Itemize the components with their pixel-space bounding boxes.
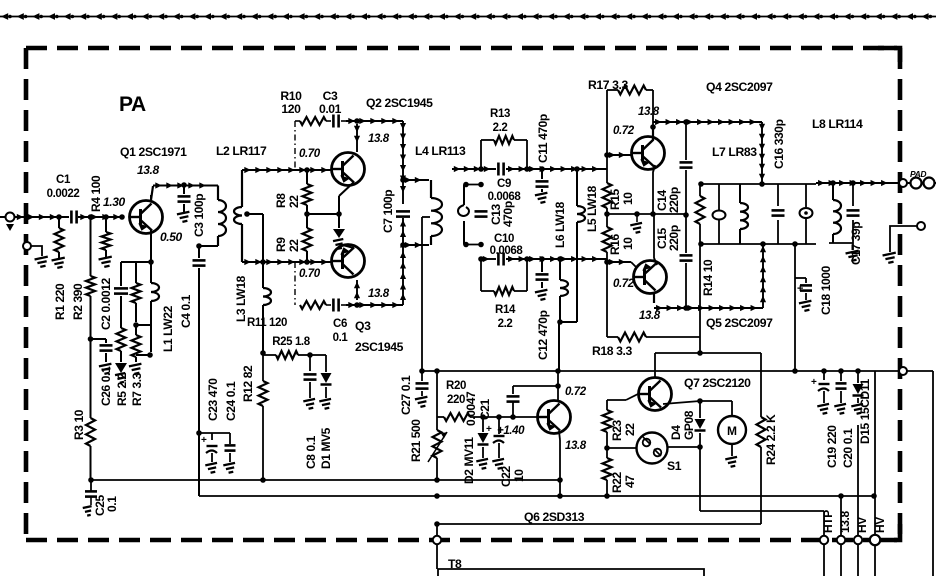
node <box>830 180 856 186</box>
label Q6 2SD313 <box>524 510 585 524</box>
wire <box>654 214 657 265</box>
svg-text:R13: R13 <box>490 108 510 120</box>
ground <box>177 212 191 223</box>
label C1 0.0022 <box>47 174 80 200</box>
svg-text:22: 22 <box>623 423 637 436</box>
label R21 500 <box>409 419 423 462</box>
label R22 47 <box>610 471 637 493</box>
svg-text:220: 220 <box>447 394 465 406</box>
svg-text:47: 47 <box>623 475 637 488</box>
label C15 220p <box>655 225 681 251</box>
svg-text:0.72: 0.72 <box>565 386 587 398</box>
wire <box>653 293 655 303</box>
label C8 0.1 <box>304 435 318 469</box>
wire <box>452 166 496 172</box>
transformer T8 box <box>438 569 704 576</box>
svg-text:0.1: 0.1 <box>105 496 119 512</box>
svg-text:13.8: 13.8 <box>368 288 390 300</box>
label R23 22 <box>610 419 637 441</box>
svg-text:Q5 2SC2097: Q5 2SC2097 <box>706 316 773 330</box>
capacitor C15 220p <box>680 215 693 308</box>
svg-text:R15: R15 <box>608 188 622 210</box>
node <box>478 166 484 262</box>
diode D15 15CD11 <box>853 371 864 403</box>
transistor Q5 <box>634 261 667 294</box>
wire <box>346 302 403 308</box>
ground <box>303 399 316 410</box>
wire <box>481 256 496 262</box>
label 0.70 <box>299 268 321 280</box>
node <box>354 118 360 124</box>
wire <box>295 120 300 122</box>
wire <box>339 244 354 248</box>
svg-text:C12 470p: C12 470p <box>536 310 550 360</box>
capacitor C25 0.1 <box>83 480 97 516</box>
label 1.30 <box>103 195 125 209</box>
input connector J1 <box>0 213 15 232</box>
inductor L4 <box>431 180 442 245</box>
svg-text:Q6 2SD313: Q6 2SD313 <box>524 510 585 524</box>
node <box>698 241 798 247</box>
inductor L6 LW18 <box>560 259 568 322</box>
node <box>400 177 406 248</box>
svg-text:0.0047: 0.0047 <box>464 391 478 426</box>
wire <box>339 182 354 228</box>
wire <box>655 352 761 354</box>
wire <box>354 124 360 152</box>
node <box>759 181 765 187</box>
node <box>260 350 266 356</box>
wire <box>506 166 607 172</box>
wire <box>247 213 263 215</box>
resistor R1 220 <box>55 217 64 258</box>
wire rail A <box>91 479 560 481</box>
svg-text:10: 10 <box>621 237 635 250</box>
svg-text:13.8: 13.8 <box>368 133 390 145</box>
capacitor C27 0.1 <box>416 371 429 396</box>
label C27 0.1 <box>399 375 413 415</box>
wire <box>607 213 686 215</box>
capacitor C23 470 <box>201 433 218 462</box>
capacitor C9 0.0068 <box>498 163 503 176</box>
svg-text:C26 0.1: C26 0.1 <box>99 366 113 406</box>
label 13.8 <box>565 440 587 452</box>
node <box>307 352 313 358</box>
svg-text:R9: R9 <box>274 237 288 252</box>
svg-text:L8 LR114: L8 LR114 <box>812 117 863 131</box>
label 0.72 <box>565 386 587 398</box>
wire <box>794 278 796 371</box>
label C3 0.01 <box>319 89 342 116</box>
svg-text:C1: C1 <box>56 174 71 186</box>
resistor R2 390 <box>86 276 95 296</box>
wire <box>700 510 824 512</box>
wire <box>120 351 122 362</box>
node <box>555 383 561 389</box>
svg-text:R3 10: R3 10 <box>72 409 86 440</box>
capacitor C11 470p <box>536 169 549 192</box>
resistor R17 3.3 <box>607 86 653 95</box>
label Q4 2SC2097 <box>706 80 773 94</box>
node <box>524 256 563 262</box>
ground <box>799 301 813 312</box>
node <box>88 477 563 483</box>
wire <box>151 186 153 200</box>
svg-text:R23: R23 <box>610 419 624 441</box>
node <box>650 124 656 130</box>
svg-text:L3 LW18: L3 LW18 <box>234 275 248 322</box>
ground <box>535 290 549 301</box>
inductor L3 LW18 <box>263 288 271 353</box>
wire <box>121 261 151 263</box>
node <box>634 211 640 217</box>
ground <box>99 257 114 268</box>
resistor R4 100 <box>102 217 111 257</box>
svg-text:C3 100p: C3 100p <box>192 194 206 237</box>
node <box>181 182 187 188</box>
svg-text:13.8: 13.8 <box>638 106 660 118</box>
capacitor C16 330p <box>772 184 785 244</box>
ground <box>415 397 429 408</box>
label C16 330p <box>772 119 786 169</box>
svg-text:L5 LW18: L5 LW18 <box>585 185 599 232</box>
wire <box>606 155 608 183</box>
svg-text:Q7 2SC2120: Q7 2SC2120 <box>684 376 751 390</box>
label PAD <box>910 169 926 179</box>
svg-text:D15 15CD11: D15 15CD11 <box>858 379 872 444</box>
wire <box>557 371 559 400</box>
wire <box>700 183 816 185</box>
transistor Q3 <box>332 245 365 278</box>
capacitor C18 1000 <box>795 278 812 300</box>
input shield feedthrough <box>23 242 42 256</box>
svg-text:120: 120 <box>281 102 301 116</box>
resistor R11 120 <box>300 301 326 309</box>
svg-text:R16: R16 <box>608 233 622 255</box>
label 13.8 <box>368 288 390 300</box>
node <box>524 166 580 172</box>
label C9 0.0068 <box>488 178 522 203</box>
svg-text:C6: C6 <box>333 318 347 330</box>
svg-text:C16 330p: C16 330p <box>772 119 786 169</box>
node <box>557 319 563 325</box>
node <box>103 214 109 220</box>
svg-text:R12 82: R12 82 <box>241 365 255 402</box>
label L5 LW18 <box>585 185 599 232</box>
svg-text:470p: 470p <box>501 201 515 227</box>
inductor L4 secondary <box>458 182 484 248</box>
wire <box>607 447 637 449</box>
wire <box>153 182 218 188</box>
wire <box>196 430 230 436</box>
label L1 LW22 <box>161 305 175 352</box>
wire <box>668 446 700 448</box>
label C13 470p <box>489 201 515 227</box>
svg-text:Q2 2SC1945: Q2 2SC1945 <box>366 96 433 110</box>
label HTP <box>821 510 835 533</box>
wire <box>816 180 898 186</box>
wire <box>760 244 766 308</box>
inductor L7 <box>740 184 748 244</box>
resistor R3 10 <box>86 339 95 480</box>
svg-text:R5 2.2: R5 2.2 <box>115 372 129 406</box>
svg-text:+1.40: +1.40 <box>497 425 525 437</box>
label L2 LR117 <box>216 144 267 158</box>
label Q1 2SC1971 <box>120 145 187 159</box>
wire <box>506 256 607 262</box>
resistor R13 2.2 <box>481 136 527 169</box>
inductor L7 link <box>713 184 726 244</box>
label C3 100p <box>192 194 206 237</box>
node <box>148 259 154 265</box>
terminal HV <box>854 536 862 576</box>
svg-text:0.01: 0.01 <box>319 102 342 116</box>
label L4 LR113 <box>415 144 466 158</box>
svg-text:Q4 2SC2097: Q4 2SC2097 <box>706 80 773 94</box>
ground <box>834 404 847 415</box>
label D1 MV5 <box>319 427 333 469</box>
wire dash-dot <box>294 262 296 305</box>
svg-text:D4: D4 <box>669 425 683 440</box>
wire <box>91 339 107 343</box>
wire rail B <box>199 495 874 497</box>
svg-text:L2 LR117: L2 LR117 <box>216 144 267 158</box>
diode D1 MV5 <box>310 355 332 398</box>
svg-text:220p: 220p <box>667 225 681 251</box>
ground <box>851 404 864 415</box>
node <box>434 493 877 499</box>
svg-text:0.70: 0.70 <box>299 148 321 160</box>
wire <box>150 195 152 202</box>
transistor Q4 <box>632 137 665 170</box>
inductor L2 left winding <box>234 170 242 262</box>
wire <box>262 214 264 288</box>
wire <box>636 214 638 222</box>
ground <box>333 229 345 249</box>
ground <box>115 363 127 383</box>
label C26 0.1 <box>99 366 113 406</box>
resistor R8 22 <box>303 167 312 214</box>
capacitor C26 0.1 <box>100 345 113 362</box>
label C20 0.1 <box>841 428 855 468</box>
capacitor C7 100p <box>396 211 410 216</box>
svg-text:2SC1945: 2SC1945 <box>355 340 404 354</box>
capacitor C21 0.0047 <box>507 386 559 417</box>
node <box>604 259 610 265</box>
label R24 2.2 K <box>764 414 778 465</box>
label C11 470p <box>536 114 550 163</box>
label Q3 2SC1945 <box>355 319 404 354</box>
svg-text:+: + <box>201 435 207 446</box>
wire <box>852 243 854 250</box>
transistor Q7 <box>639 378 672 411</box>
svg-text:10: 10 <box>621 192 635 205</box>
svg-text:+: + <box>811 377 817 388</box>
label Q5 2SC2097 <box>706 316 773 330</box>
label R10 120 <box>280 89 302 116</box>
svg-text:C23 470: C23 470 <box>206 378 220 421</box>
transistor Q6 <box>538 401 571 434</box>
wire <box>0 13 936 20</box>
wire <box>606 262 608 337</box>
svg-text:R1 220: R1 220 <box>53 283 67 320</box>
resistor R23 22 <box>603 400 612 448</box>
label C17 39p <box>849 222 863 265</box>
wire <box>823 511 825 536</box>
label 0.0047 <box>464 391 478 426</box>
wire <box>242 259 332 265</box>
svg-text:R10: R10 <box>280 89 302 103</box>
wire <box>434 521 761 527</box>
node <box>604 152 610 158</box>
ground <box>630 223 643 234</box>
svg-text:13.8: 13.8 <box>639 310 661 322</box>
ground <box>35 257 50 268</box>
svg-text:22: 22 <box>287 239 301 252</box>
wire <box>607 259 636 267</box>
label R2 390 <box>71 283 85 320</box>
svg-text:0.70: 0.70 <box>299 268 321 280</box>
svg-text:M: M <box>727 424 737 438</box>
wire <box>857 425 859 536</box>
label S1 <box>667 459 682 473</box>
capacitor C17 39p <box>847 183 860 243</box>
svg-text:L6 LW18: L6 LW18 <box>553 201 567 248</box>
PA enclosure dashed border <box>26 48 900 540</box>
svg-text:D1 MV5: D1 MV5 <box>319 427 333 469</box>
node <box>354 302 360 308</box>
label C14 220p <box>655 187 681 213</box>
svg-text:L7 LR83: L7 LR83 <box>712 145 757 159</box>
label C23 470 <box>206 378 220 421</box>
label R1 220 <box>53 283 67 320</box>
svg-text:GP08: GP08 <box>682 410 696 440</box>
ground <box>492 459 505 470</box>
feedthrough <box>899 367 907 375</box>
svg-text:C27 0.1: C27 0.1 <box>399 375 413 415</box>
capacitor C1 0.0022 <box>71 211 76 224</box>
svg-text:L4 LR113: L4 LR113 <box>415 144 466 158</box>
resistor R5 2.2 <box>117 328 126 351</box>
node <box>698 181 704 187</box>
label R9 22 <box>274 237 301 252</box>
svg-text:R21 500: R21 500 <box>409 419 423 462</box>
label 13.8 <box>638 106 660 118</box>
label 13.8 <box>838 511 852 533</box>
label T8 <box>448 557 462 571</box>
node <box>88 336 94 342</box>
label D4 GP08 <box>669 410 696 440</box>
label C4 0.1 <box>179 294 193 328</box>
diode D2 MV11 <box>478 417 489 458</box>
resistor R12 82 <box>259 353 268 480</box>
label C19 220 <box>825 425 839 468</box>
label R16 10 <box>608 233 635 255</box>
ground <box>129 364 143 375</box>
capacitor C22 10 <box>486 417 505 458</box>
ground <box>205 463 218 474</box>
wire <box>650 165 656 217</box>
ground <box>883 253 898 264</box>
resistor R15 10 <box>603 183 612 208</box>
wire <box>470 416 537 418</box>
label 0.70 <box>299 148 321 160</box>
label 13.8 <box>639 310 661 322</box>
node <box>133 322 139 328</box>
svg-text:R14: R14 <box>495 304 516 316</box>
ground <box>52 258 67 269</box>
label HV <box>873 517 887 533</box>
resistor R7 3.3 lower <box>132 325 141 362</box>
ground <box>725 457 738 468</box>
svg-text:S1: S1 <box>667 459 682 473</box>
transistor Q1 <box>130 201 163 234</box>
label C21 <box>478 398 492 420</box>
label Q2 2SC1945 <box>366 96 433 110</box>
wire <box>906 371 933 576</box>
wire <box>731 444 733 456</box>
svg-text:C18 1000: C18 1000 <box>819 265 833 315</box>
inductor L8 <box>833 183 841 243</box>
node <box>56 214 62 220</box>
label L8 LR114 <box>812 117 863 131</box>
ground <box>223 463 236 474</box>
svg-text:C8 0.1: C8 0.1 <box>304 435 318 469</box>
wire <box>90 296 92 339</box>
svg-text:13.8: 13.8 <box>565 440 587 452</box>
wire <box>606 90 608 155</box>
wire <box>436 524 438 569</box>
svg-text:R25 1.8: R25 1.8 <box>272 336 310 348</box>
capacitor C24 0.1 <box>225 433 236 462</box>
capacitor C14 220p <box>680 122 693 215</box>
resistor R9 22 <box>303 214 312 265</box>
resistor R20 220 <box>444 413 470 421</box>
label L7 LR83 <box>712 145 757 159</box>
wire <box>663 401 700 404</box>
svg-text:Q1 2SC1971: Q1 2SC1971 <box>120 145 187 159</box>
svg-text:0.0022: 0.0022 <box>47 188 80 200</box>
wire <box>437 416 444 418</box>
capacitor C6 0.1 <box>326 299 346 312</box>
svg-text:C22: C22 <box>499 465 513 487</box>
svg-text:R14 10: R14 10 <box>701 259 715 296</box>
resistor R7 3.3 <box>132 262 141 322</box>
svg-text:HV: HV <box>873 517 887 533</box>
label R11 120 <box>247 317 287 329</box>
svg-text:Q3: Q3 <box>355 319 371 333</box>
wire <box>652 90 654 127</box>
label Q7 2SC2120 <box>684 376 751 390</box>
ground <box>319 399 332 410</box>
label R18 3.3 <box>592 344 633 358</box>
resistor R16 10 <box>603 208 612 262</box>
label R8 22 <box>274 193 301 208</box>
wire <box>607 394 638 400</box>
label 0.72 <box>613 125 635 137</box>
wire <box>829 242 853 244</box>
label C25 0.1 <box>93 494 119 516</box>
label R14 10 <box>701 259 715 296</box>
wire dash-dot <box>294 121 296 170</box>
svg-text:R8: R8 <box>274 193 288 208</box>
label R25 1.8 <box>272 336 310 348</box>
inductor choke <box>218 186 226 247</box>
svg-text:2.2: 2.2 <box>498 318 513 330</box>
wire <box>559 431 560 496</box>
label R15 10 <box>608 188 635 210</box>
wire <box>699 244 701 353</box>
